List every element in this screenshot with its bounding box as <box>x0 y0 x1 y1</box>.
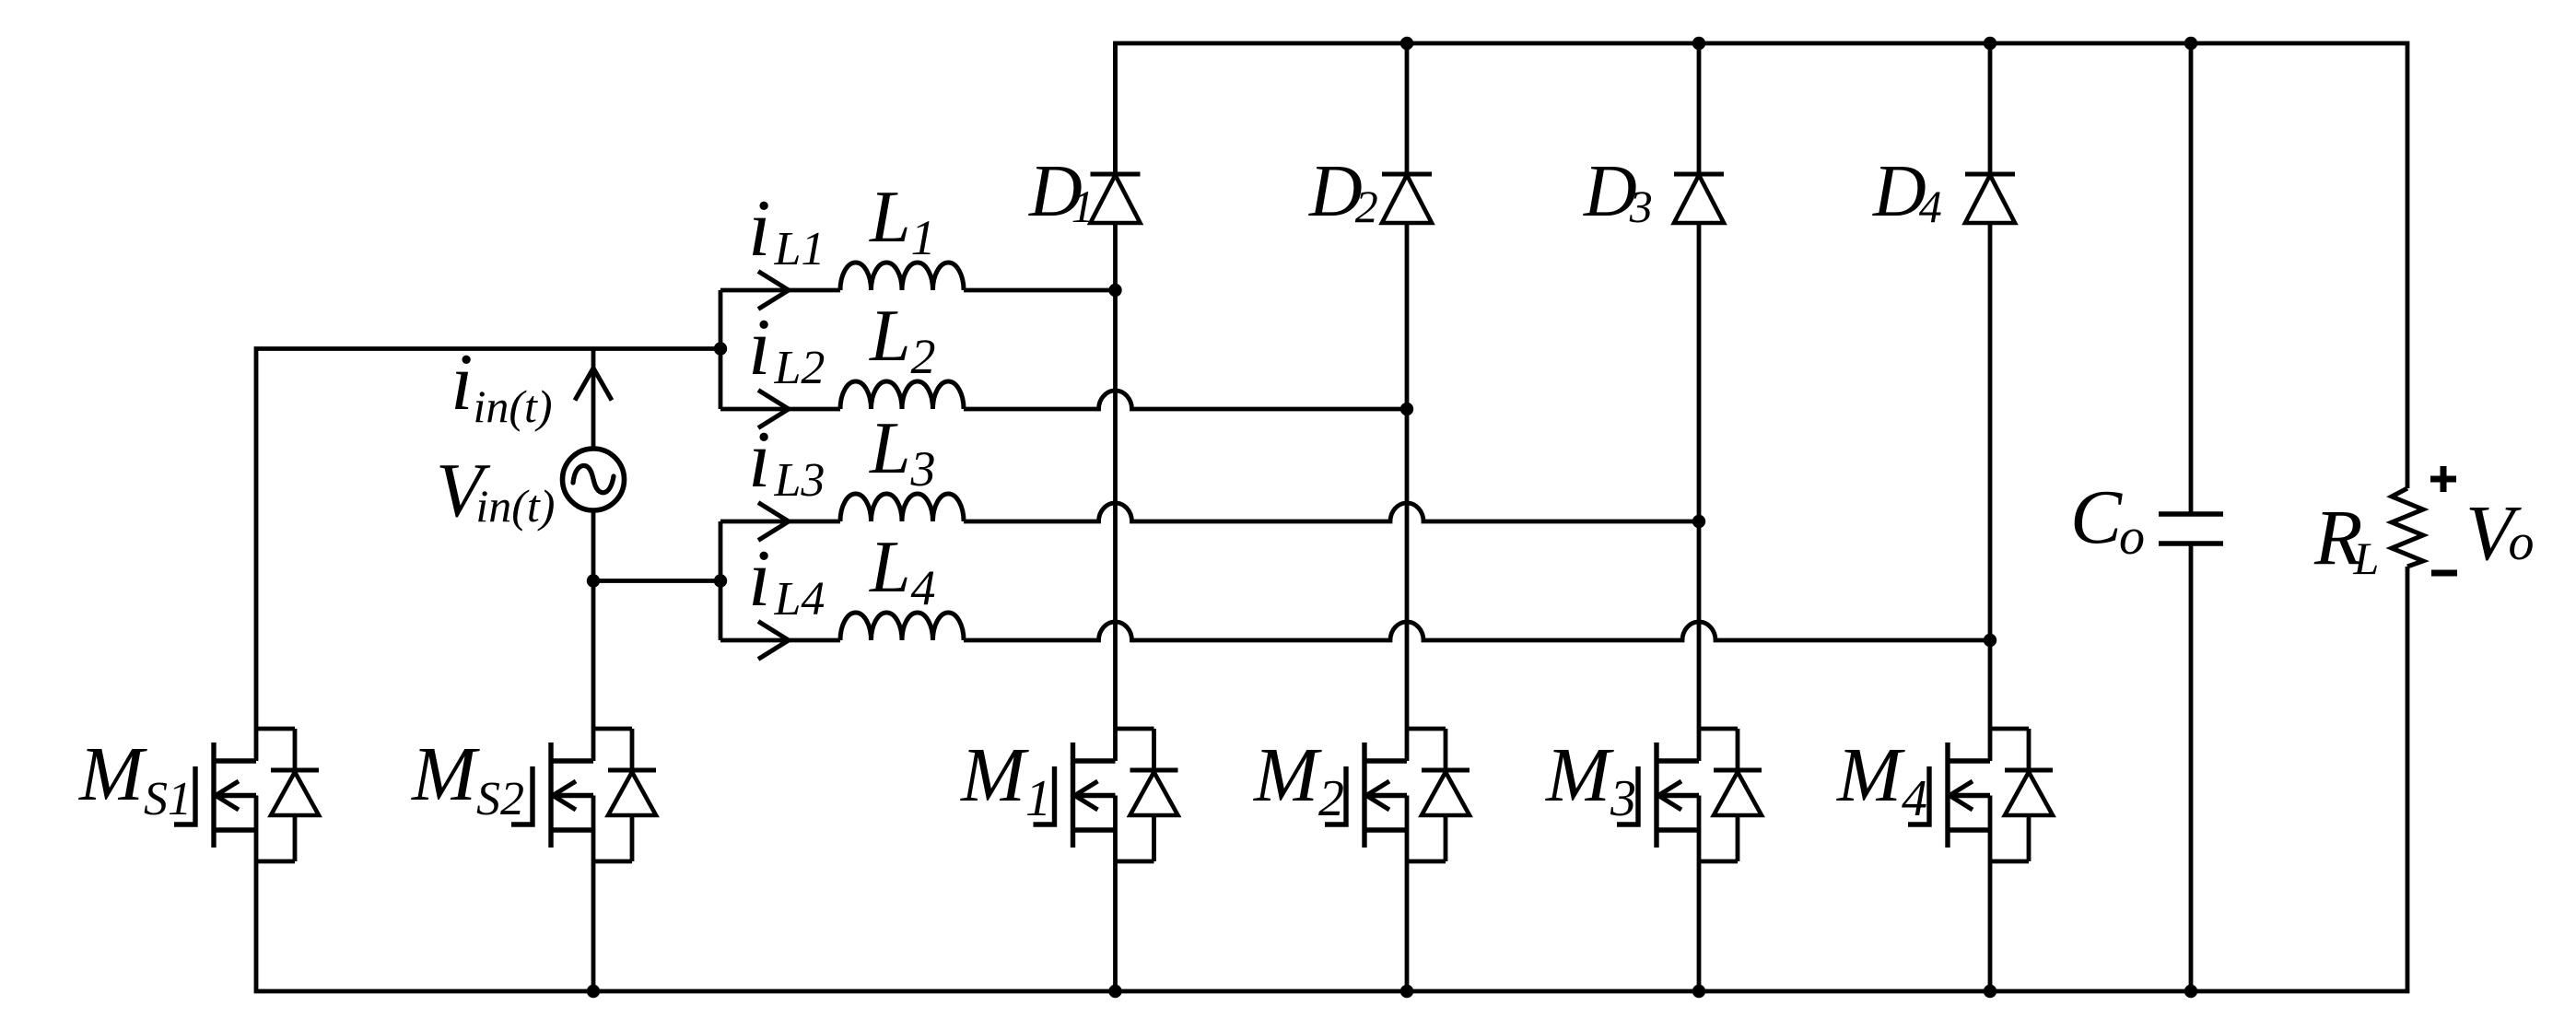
node: top bus at D4 <box>1984 37 1996 50</box>
diode D3 <box>1697 43 1702 174</box>
wire: iL2 lead-in <box>720 407 840 412</box>
node: L4-D4 junction <box>1984 634 1996 647</box>
wire: branch vertical L3-L4 <box>719 521 723 640</box>
inductor L4 coil <box>840 613 964 640</box>
transistor M2 <box>1444 729 1448 770</box>
wire: iL3 lead-in <box>720 520 840 524</box>
capacitor Co plates <box>2159 511 2223 517</box>
node: bottom bus at M2 <box>1400 985 1413 998</box>
node: L3-D3 junction <box>1692 515 1705 528</box>
node: bottom bus at Co <box>2184 985 2197 998</box>
wire: M1 source to bottom bus <box>1113 796 1118 992</box>
diode D1 <box>1113 43 1118 174</box>
wire: input top rail from branch node to MS1 column <box>256 349 720 762</box>
wire: D4 column to MOSFET M4 <box>1988 640 1993 761</box>
wire: D1 column to MOSFET M1 <box>1113 290 1118 761</box>
node: branch point L3/L4 <box>714 574 727 587</box>
node: top bus at Co <box>2184 37 2197 50</box>
transistor MS1 <box>293 729 298 770</box>
wire: L3 output with crossover hops <box>964 503 1699 521</box>
diode D2 <box>1405 43 1410 174</box>
wire: D1 cathode column, top bus, RL upper lead <box>1116 43 2408 488</box>
polarity minus <box>2431 570 2457 577</box>
node: Vin lower junction <box>587 574 600 587</box>
arrow iL2 <box>758 391 789 428</box>
node: bottom bus at MS2 <box>587 985 600 998</box>
inductor L1 coil <box>840 263 964 290</box>
wire: M3 source to bottom bus <box>1697 796 1702 992</box>
wire: M2 source to bottom bus <box>1405 796 1410 992</box>
inductor L3 coil <box>840 494 964 521</box>
node: bottom bus at M4 <box>1984 985 1996 998</box>
wire: Vin column upper segment (arrow to top rail) <box>591 349 596 450</box>
node: L1-D1 junction <box>1108 284 1121 297</box>
node: bottom bus at M1 <box>1108 985 1121 998</box>
arrow iL1 <box>758 272 789 310</box>
transistor M4 <box>2027 729 2032 770</box>
transistor M3 <box>1736 729 1740 770</box>
wire: Vin column lower segment <box>591 510 596 761</box>
wire: D3 column to MOSFET M3 <box>1697 521 1702 761</box>
inductor L2 coil <box>840 381 964 409</box>
arrow iL3 <box>758 503 789 541</box>
node: L2-D2 junction <box>1400 403 1413 415</box>
wire: lower input wire Vin to L3/L4 branch <box>593 579 720 583</box>
wire: L1 output with crossover hops <box>964 288 1116 293</box>
transistor MS2 <box>630 729 635 770</box>
wire: M4 source to bottom bus <box>1988 796 1993 992</box>
diode D4 <box>1988 43 1993 174</box>
wire: iL4 lead-in <box>720 638 840 643</box>
wire: iL1 lead-in <box>720 288 840 293</box>
wire: MS1 source to bottom bus, bottom bus, RL lower lead <box>256 567 2407 991</box>
node: branch point L1/L2 <box>714 342 727 355</box>
arrow iin(t) upward <box>575 368 612 401</box>
AC source sine wave <box>573 465 614 492</box>
wire: branch vertical L1-L2 <box>719 290 723 409</box>
polarity plus <box>2430 466 2456 492</box>
node: top bus at D2 <box>1400 37 1413 50</box>
capacitor Co lower lead <box>2189 544 2194 991</box>
wire: L4 output with crossover hops <box>964 622 1990 640</box>
wire: L2 output with crossover hops <box>964 391 1407 409</box>
resistor RL zigzag <box>2392 488 2423 567</box>
wire: D2 column to MOSFET M2 <box>1405 409 1410 761</box>
transistor M1 <box>1152 729 1156 770</box>
AC source Vin(t) circle <box>563 449 625 510</box>
arrow iL4 <box>758 622 789 660</box>
wire: MS2 source to bottom bus <box>591 796 596 994</box>
node: bottom bus at M3 <box>1692 985 1705 998</box>
capacitor Co upper lead <box>2189 43 2194 514</box>
node: top bus at D3 <box>1692 37 1705 50</box>
